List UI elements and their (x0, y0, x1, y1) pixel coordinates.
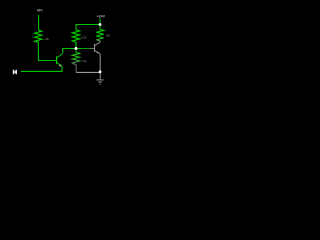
wire (Q2 emitter down) (99, 54, 101, 72)
svg-text:43k: 43k (44, 37, 49, 41)
svg-text:+6V: +6V (36, 8, 43, 12)
wire (38, 42, 55, 60)
wire (emitter node left to R4) (76, 71, 100, 73)
node (junction dot at +24V) (99, 23, 102, 26)
node A junction dot (75, 47, 78, 50)
wire (99, 19, 101, 25)
node (emitter junction dot) (99, 70, 102, 73)
resistor R3 (72, 30, 79, 49)
svg-text:10k: 10k (82, 59, 87, 63)
svg-text:+24V: +24V (97, 15, 106, 19)
transistor Q2 (94, 42, 100, 54)
wire (38, 15, 40, 30)
transistor Q1 (56, 54, 62, 67)
wire (Q1 emitter down to input H) (21, 67, 62, 72)
resistor R4 (72, 49, 79, 73)
wire (top to R3) (76, 25, 100, 30)
resistor R2 (96, 25, 103, 43)
resistor R1 (35, 30, 42, 42)
logic input H (13, 70, 17, 75)
wire (node A to Q2 base) (76, 48, 94, 50)
wire (Q1 collector up to node A) (63, 49, 76, 54)
svg-text:100: 100 (105, 34, 110, 38)
svg-text:43k: 43k (81, 36, 86, 40)
ground (96, 73, 103, 84)
